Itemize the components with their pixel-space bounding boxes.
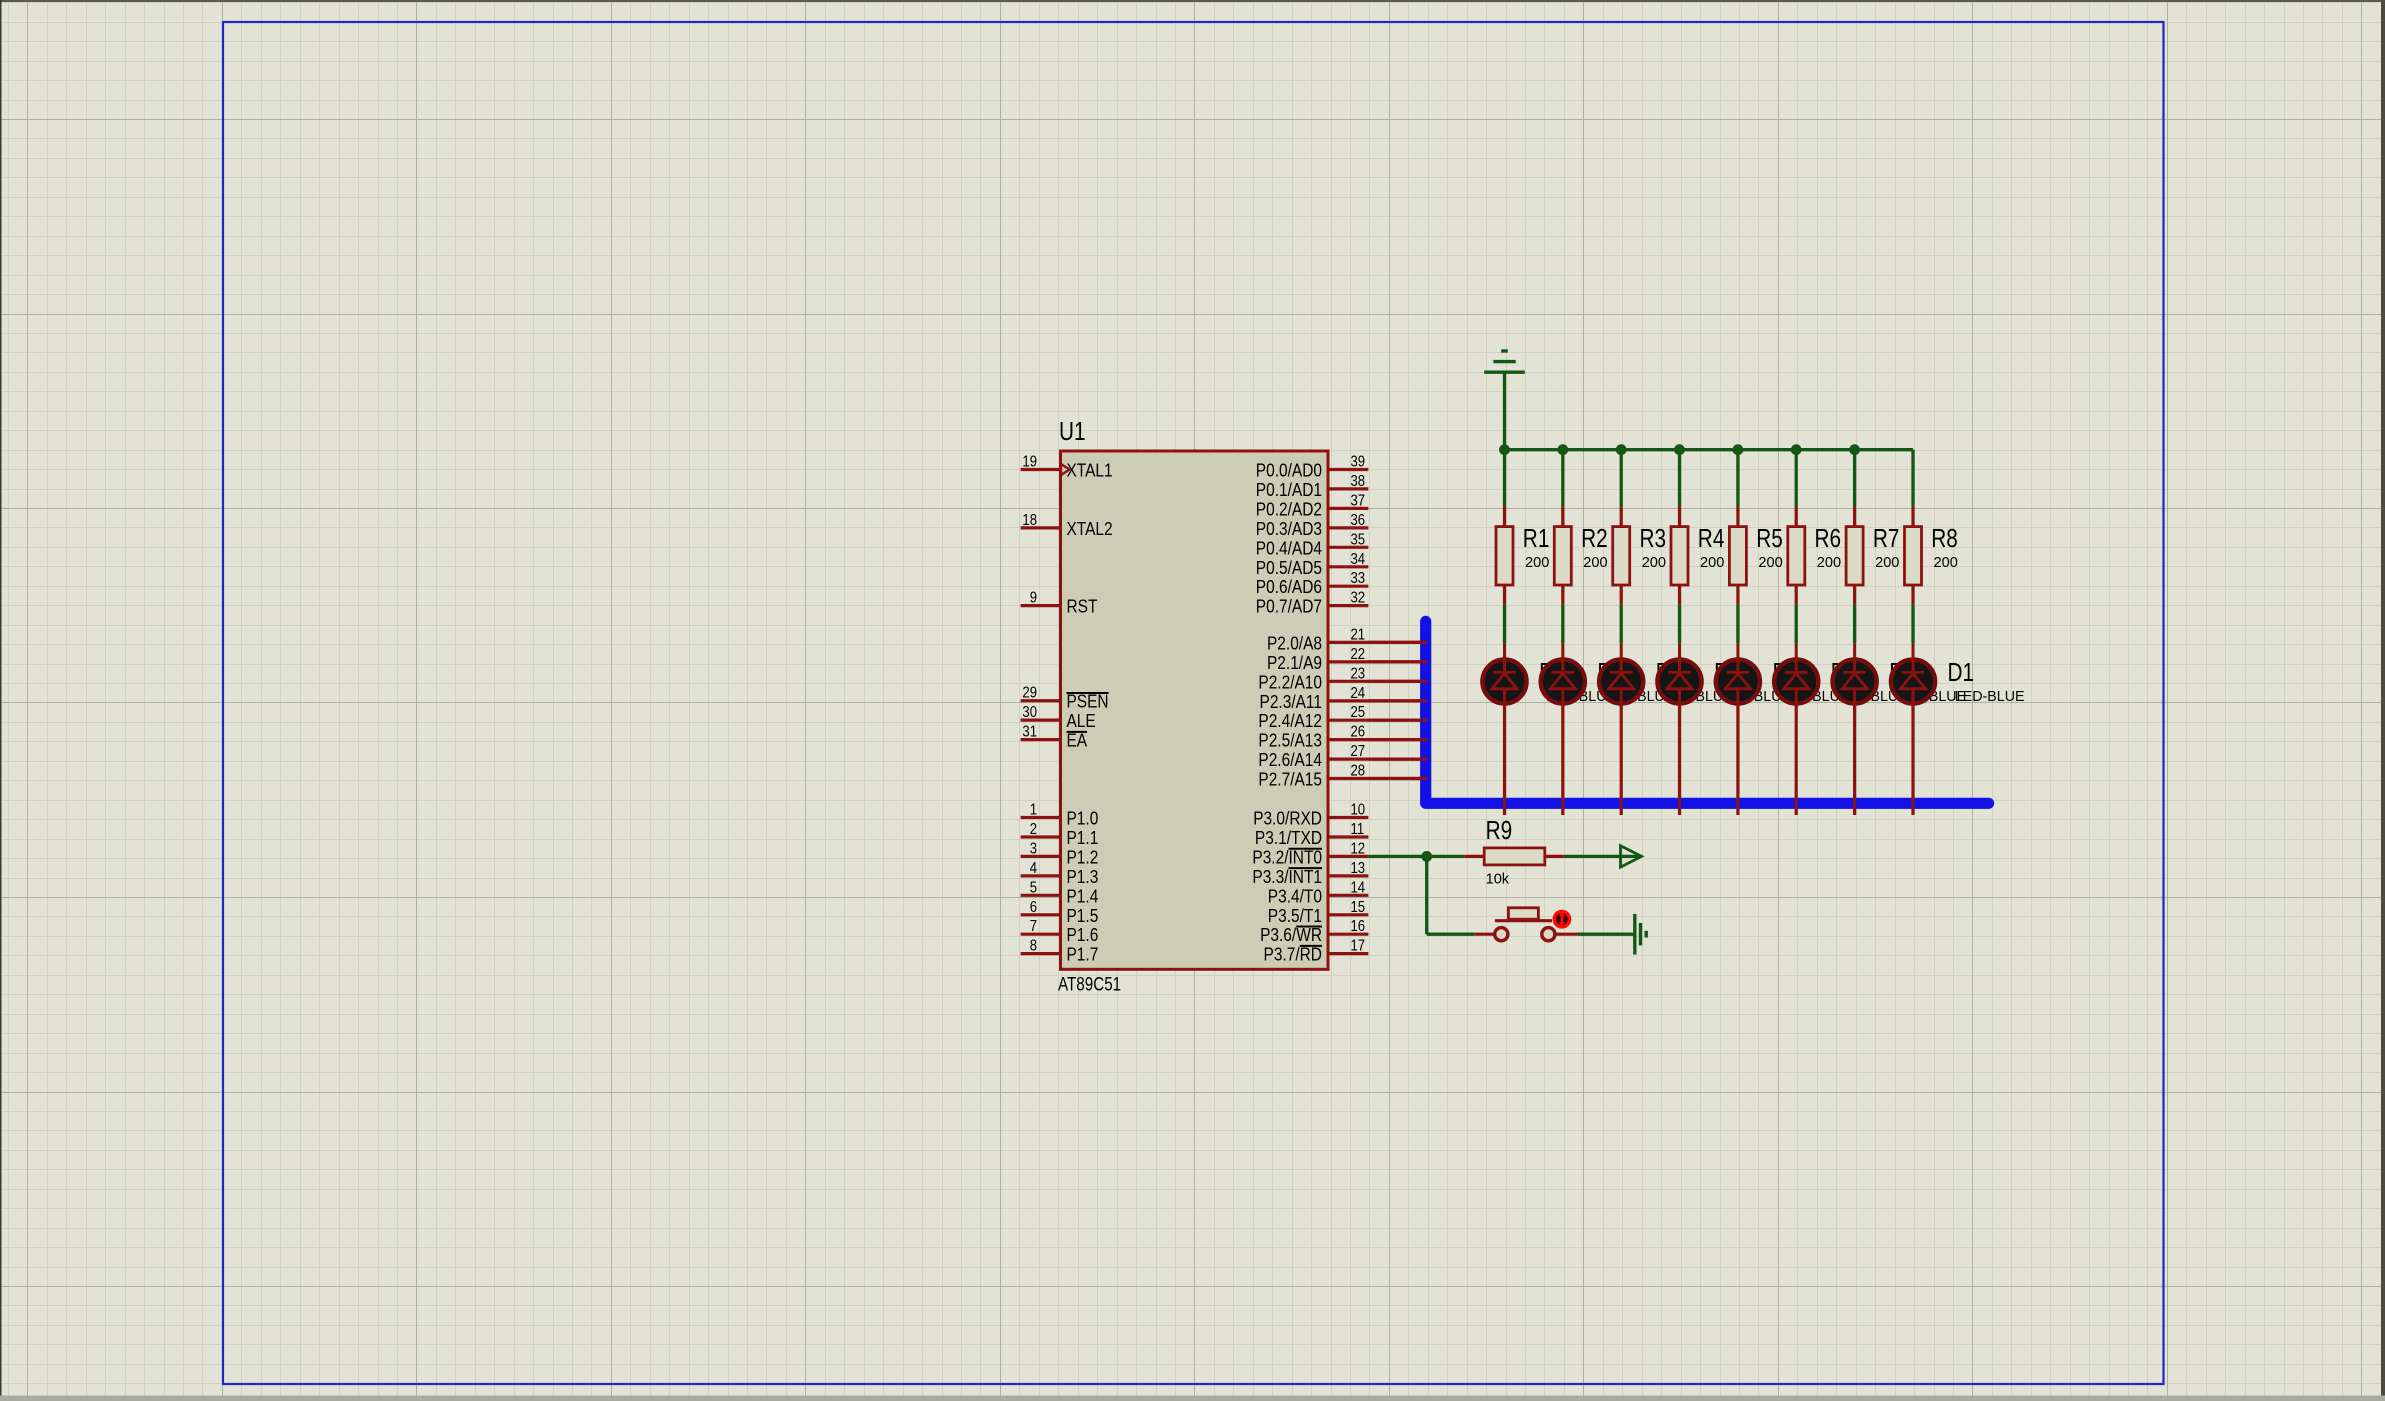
svg-text:P0.7/AD7: P0.7/AD7 xyxy=(1256,597,1322,617)
pin 27 P2.6/A14 (right) xyxy=(1258,743,1427,770)
pin 10 P3.0/RXD (right) xyxy=(1253,802,1368,829)
button interactive marker xyxy=(1554,912,1569,927)
pin 22 P2.1/A9 (right) xyxy=(1267,646,1428,673)
svg-text:200: 200 xyxy=(1700,554,1724,571)
pin 30 ALE (left) xyxy=(1021,704,1096,731)
junction node rail/R6 xyxy=(1791,444,1802,455)
wire R7 to LED xyxy=(1853,605,1856,643)
wire rail to R3 xyxy=(1620,450,1623,506)
LED D2 labels xyxy=(1889,657,1966,705)
svg-text:XTAL1: XTAL1 xyxy=(1067,461,1113,481)
svg-text:36: 36 xyxy=(1351,512,1366,529)
svg-text:31: 31 xyxy=(1022,724,1037,741)
resistor R5 200 xyxy=(1729,506,1782,605)
svg-text:P1.6: P1.6 xyxy=(1067,925,1099,945)
svg-text:12: 12 xyxy=(1351,840,1366,857)
wire LED D1 to bus xyxy=(1911,704,1914,816)
svg-text:P1.1: P1.1 xyxy=(1067,828,1099,848)
svg-text:P1.2: P1.2 xyxy=(1067,847,1099,867)
svg-text:35: 35 xyxy=(1351,531,1366,548)
svg-text:R7: R7 xyxy=(1873,523,1900,553)
wire ground stem xyxy=(1503,372,1506,450)
junction node rail/R1 xyxy=(1499,444,1510,455)
pin 5 P1.4 (left) xyxy=(1021,879,1099,906)
svg-text:R5: R5 xyxy=(1756,523,1783,553)
pin 36 P0.3/AD3 (right) xyxy=(1256,512,1369,539)
svg-text:R8: R8 xyxy=(1931,523,1958,553)
svg-text:23: 23 xyxy=(1351,665,1366,682)
svg-text:P0.2/AD2: P0.2/AD2 xyxy=(1256,499,1322,519)
wire rail to R7 xyxy=(1853,450,1856,506)
wire R4 to LED xyxy=(1678,605,1681,643)
chip U1 reference label xyxy=(1059,416,1086,446)
chip U1 value label AT89C51 xyxy=(1058,975,1121,996)
svg-text:14: 14 xyxy=(1351,879,1366,896)
pin 21 P2.0/A8 (right) xyxy=(1267,626,1428,653)
svg-text:7: 7 xyxy=(1030,918,1037,935)
pin 31 EA (left) xyxy=(1021,724,1088,751)
chip U1 AT89C51 body xyxy=(1061,451,1329,969)
svg-text:D1: D1 xyxy=(1948,657,1975,687)
svg-text:10k: 10k xyxy=(1486,871,1510,888)
svg-text:200: 200 xyxy=(1875,554,1899,571)
svg-text:33: 33 xyxy=(1351,570,1366,587)
svg-text:R4: R4 xyxy=(1698,523,1725,553)
window chrome edges xyxy=(0,0,2385,2)
wire LED D8 to bus xyxy=(1503,704,1506,816)
pin 3 P1.2 (left) xyxy=(1021,840,1099,867)
svg-text:13: 13 xyxy=(1351,860,1366,877)
wire rail to R1 xyxy=(1503,450,1506,506)
pin 39 P0.0/AD0 (right) xyxy=(1256,454,1369,481)
svg-text:200: 200 xyxy=(1642,554,1666,571)
wire LED D7 to bus xyxy=(1561,704,1564,816)
wire junction down xyxy=(1425,856,1428,934)
svg-text:1: 1 xyxy=(1030,802,1037,819)
svg-text:3: 3 xyxy=(1030,840,1037,857)
resistor R9 10k xyxy=(1464,815,1563,887)
svg-text:30: 30 xyxy=(1022,704,1037,721)
pin 26 P2.5/A13 (right) xyxy=(1258,724,1427,751)
svg-text:200: 200 xyxy=(1525,554,1549,571)
svg-text:P0.5/AD5: P0.5/AD5 xyxy=(1256,558,1322,578)
svg-text:21: 21 xyxy=(1351,626,1366,643)
pin 2 P1.1 (left) xyxy=(1021,821,1099,848)
svg-text:P3.0/RXD: P3.0/RXD xyxy=(1253,809,1322,829)
pin 28 P2.7/A15 (right) xyxy=(1258,763,1427,790)
wire LED D3 to bus xyxy=(1795,704,1798,816)
LED D4 labels xyxy=(1773,657,1850,705)
wire P3.2 to junction xyxy=(1368,855,1426,858)
wire R8 to LED xyxy=(1911,605,1914,643)
resistor R8 200 xyxy=(1905,506,1958,605)
junction node rail/R7 xyxy=(1849,444,1860,455)
svg-text:16: 16 xyxy=(1351,918,1366,935)
svg-text:P1.0: P1.0 xyxy=(1067,809,1099,829)
LED D4 xyxy=(1716,643,1760,704)
LED D3 labels xyxy=(1831,657,1908,705)
resistor R2 200 xyxy=(1554,506,1607,605)
wire LED D6 to bus xyxy=(1620,704,1623,816)
pin 33 P0.6/AD6 (right) xyxy=(1256,570,1369,597)
svg-text:34: 34 xyxy=(1351,551,1366,568)
wire to button xyxy=(1427,933,1475,936)
svg-text:22: 22 xyxy=(1351,646,1366,663)
LED D6 labels xyxy=(1656,657,1733,705)
P2 pin stubs over bus xyxy=(1368,642,1427,778)
svg-text:P3.7/RD: P3.7/RD xyxy=(1264,945,1323,965)
svg-text:27: 27 xyxy=(1351,743,1366,760)
svg-text:P2.2/A10: P2.2/A10 xyxy=(1258,672,1322,692)
svg-text:AT89C51: AT89C51 xyxy=(1058,975,1121,996)
svg-text:24: 24 xyxy=(1351,685,1366,702)
junction node rail/R5 xyxy=(1733,444,1744,455)
ground symbol (bottom right) xyxy=(1635,914,1646,955)
svg-text:200: 200 xyxy=(1758,554,1782,571)
svg-text:P2.6/A14: P2.6/A14 xyxy=(1258,750,1322,770)
wire R9 to terminal xyxy=(1564,855,1641,858)
pin 6 P1.5 (left) xyxy=(1021,899,1099,926)
svg-text:P2.4/A12: P2.4/A12 xyxy=(1258,711,1322,731)
resistor R3 200 xyxy=(1613,506,1666,605)
LED D5 xyxy=(1657,643,1701,704)
pin 8 P1.7 (left) xyxy=(1021,938,1099,965)
svg-text:R2: R2 xyxy=(1581,523,1608,553)
wire rail to R6 xyxy=(1795,450,1798,506)
pin 24 P2.3/A11 (right) xyxy=(1260,685,1428,712)
wire rail to R5 xyxy=(1736,450,1739,506)
XTAL1 clock mark xyxy=(1061,464,1070,475)
resistor R7 200 xyxy=(1846,506,1899,605)
svg-text:17: 17 xyxy=(1351,938,1366,955)
pin 38 P0.1/AD1 (right) xyxy=(1256,473,1369,500)
resistor R1 200 xyxy=(1496,506,1549,605)
svg-text:R6: R6 xyxy=(1815,523,1842,553)
svg-text:25: 25 xyxy=(1351,704,1366,721)
svg-text:P1.5: P1.5 xyxy=(1067,906,1099,926)
svg-text:U1: U1 xyxy=(1059,416,1086,446)
pin 12 P3.2/INT0 (right) xyxy=(1252,840,1368,867)
wire rail to R8 xyxy=(1911,450,1914,506)
pin 35 P0.4/AD4 (right) xyxy=(1256,531,1369,558)
pin 16 P3.6/WR (right) xyxy=(1260,918,1368,945)
svg-text:PSEN: PSEN xyxy=(1067,692,1109,712)
svg-text:P3.2/INT0: P3.2/INT0 xyxy=(1252,847,1322,867)
LED D8 labels xyxy=(1539,657,1616,705)
svg-text:200: 200 xyxy=(1583,554,1607,571)
wire LED D5 to bus xyxy=(1678,704,1681,816)
LED D1 labels xyxy=(1948,657,2025,705)
wire LED D4 to bus xyxy=(1736,704,1739,816)
svg-text:P3.1/TXD: P3.1/TXD xyxy=(1255,828,1322,848)
svg-text:XTAL2: XTAL2 xyxy=(1067,519,1113,539)
svg-text:P1.7: P1.7 xyxy=(1067,945,1099,965)
svg-text:EA: EA xyxy=(1067,731,1088,751)
svg-text:P0.3/AD3: P0.3/AD3 xyxy=(1256,519,1322,539)
junction node rail/R2 xyxy=(1557,444,1568,455)
resistor R4 200 xyxy=(1671,506,1724,605)
svg-text:32: 32 xyxy=(1351,590,1366,607)
svg-text:R9: R9 xyxy=(1486,815,1513,845)
svg-text:P1.4: P1.4 xyxy=(1067,886,1099,906)
ground symbol (top, power rail) xyxy=(1484,351,1525,372)
svg-text:P2.0/A8: P2.0/A8 xyxy=(1267,633,1322,653)
svg-text:P0.1/AD1: P0.1/AD1 xyxy=(1256,480,1322,500)
svg-text:29: 29 xyxy=(1022,685,1037,702)
wire R5 to LED xyxy=(1736,605,1739,643)
pin 7 P1.6 (left) xyxy=(1021,918,1099,945)
pin 14 P3.4/T0 (right) xyxy=(1268,879,1369,906)
LED D1 xyxy=(1891,643,1935,704)
pin 18 XTAL2 (left) xyxy=(1021,512,1113,539)
svg-text:11: 11 xyxy=(1351,821,1365,838)
svg-text:P3.5/T1: P3.5/T1 xyxy=(1268,906,1322,926)
wire R6 to LED xyxy=(1795,605,1798,643)
svg-text:200: 200 xyxy=(1817,554,1841,571)
LED D7 labels xyxy=(1597,657,1674,705)
push button xyxy=(1474,908,1577,941)
svg-text:8: 8 xyxy=(1030,938,1037,955)
svg-text:R3: R3 xyxy=(1640,523,1667,553)
svg-text:9: 9 xyxy=(1030,590,1037,607)
wire rail to R2 xyxy=(1561,450,1564,506)
svg-text:P0.4/AD4: P0.4/AD4 xyxy=(1256,538,1322,558)
wire R3 to LED xyxy=(1620,605,1623,643)
wire rail to R4 xyxy=(1678,450,1681,506)
svg-text:R1: R1 xyxy=(1523,523,1550,553)
pin 25 P2.4/A12 (right) xyxy=(1258,704,1427,731)
resistor R6 200 xyxy=(1788,506,1841,605)
svg-text:P3.4/T0: P3.4/T0 xyxy=(1268,886,1322,906)
svg-text:P2.3/A11: P2.3/A11 xyxy=(1260,692,1323,712)
junction node P3.2 xyxy=(1421,851,1432,862)
wire R1 to LED xyxy=(1503,605,1506,643)
svg-text:P1.3: P1.3 xyxy=(1067,867,1099,887)
terminal arrow (default output) xyxy=(1621,846,1642,867)
bus P2 (blue) xyxy=(1426,621,1989,803)
wire LED D2 to bus xyxy=(1853,704,1856,816)
svg-text:ALE: ALE xyxy=(1067,711,1096,731)
LED D3 xyxy=(1774,643,1818,704)
svg-text:P3.6/WR: P3.6/WR xyxy=(1260,925,1322,945)
svg-text:P2.1/A9: P2.1/A9 xyxy=(1267,653,1322,673)
junction node rail/R3 xyxy=(1616,444,1627,455)
sheet border frame xyxy=(223,22,2164,1384)
svg-text:5: 5 xyxy=(1030,879,1037,896)
svg-text:26: 26 xyxy=(1351,724,1366,741)
svg-text:P2.7/A15: P2.7/A15 xyxy=(1258,770,1322,790)
svg-text:200: 200 xyxy=(1934,554,1958,571)
svg-text:38: 38 xyxy=(1351,473,1366,490)
pin 11 P3.1/TXD (right) xyxy=(1255,821,1369,848)
pin 15 P3.5/T1 (right) xyxy=(1268,899,1369,926)
pin 19 XTAL1 (left) xyxy=(1021,454,1113,481)
pin 1 P1.0 (left) xyxy=(1021,802,1099,829)
wire ground rail xyxy=(1505,448,1914,451)
svg-text:P0.6/AD6: P0.6/AD6 xyxy=(1256,577,1322,597)
svg-text:37: 37 xyxy=(1351,492,1366,509)
svg-text:6: 6 xyxy=(1030,899,1037,916)
wire R2 to LED xyxy=(1561,605,1564,643)
svg-text:2: 2 xyxy=(1030,821,1037,838)
svg-text:LED-BLUE: LED-BLUE xyxy=(1955,688,2025,705)
pin 29 PSEN (left) xyxy=(1021,685,1109,712)
LED D6 xyxy=(1599,643,1643,704)
pin 34 P0.5/AD5 (right) xyxy=(1256,551,1369,578)
wire button to ground xyxy=(1577,933,1635,936)
svg-text:P0.0/AD0: P0.0/AD0 xyxy=(1256,461,1322,481)
svg-text:15: 15 xyxy=(1351,899,1366,916)
pin 23 P2.2/A10 (right) xyxy=(1258,665,1427,692)
LED D8 xyxy=(1482,643,1526,704)
LED D2 xyxy=(1833,643,1877,704)
pin 4 P1.3 (left) xyxy=(1021,860,1099,887)
svg-text:39: 39 xyxy=(1351,454,1366,471)
svg-text:RST: RST xyxy=(1067,597,1098,617)
svg-text:19: 19 xyxy=(1022,454,1037,471)
wire junction to R9 xyxy=(1427,855,1465,858)
pin 13 P3.3/INT1 (right) xyxy=(1252,860,1368,887)
pin 17 P3.7/RD (right) xyxy=(1264,938,1369,965)
LED D7 xyxy=(1541,643,1585,704)
junction node rail/R4 xyxy=(1674,444,1685,455)
svg-text:18: 18 xyxy=(1022,512,1037,529)
svg-text:4: 4 xyxy=(1030,860,1037,877)
pin 37 P0.2/AD2 (right) xyxy=(1256,492,1369,519)
svg-text:P3.3/INT1: P3.3/INT1 xyxy=(1252,867,1322,887)
LED D5 labels xyxy=(1714,657,1791,705)
pin 9 RST (left) xyxy=(1021,590,1098,617)
svg-text:10: 10 xyxy=(1351,802,1366,819)
pin 32 P0.7/AD7 (right) xyxy=(1256,590,1369,617)
svg-text:P2.5/A13: P2.5/A13 xyxy=(1258,731,1322,751)
svg-text:28: 28 xyxy=(1351,763,1366,780)
